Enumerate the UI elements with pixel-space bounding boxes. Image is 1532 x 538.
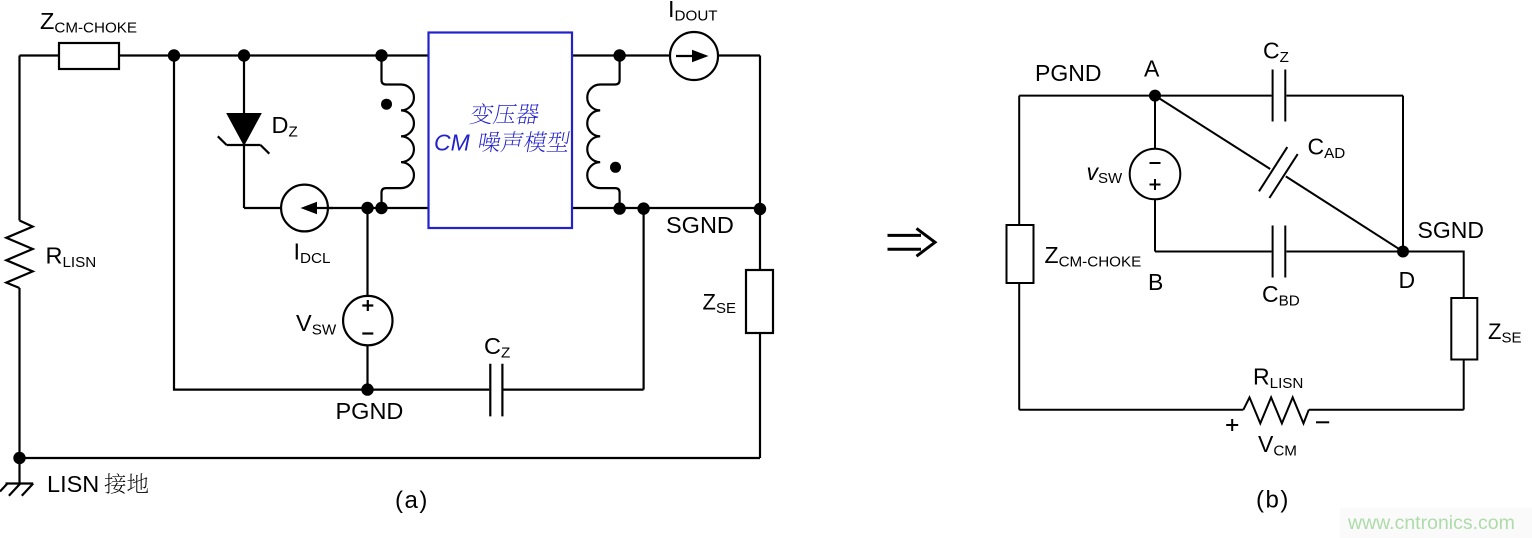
wire vSW to B [1154, 199, 1156, 251]
voltage source vSW circle (b) [1130, 149, 1181, 200]
wire DZ to IDCL row [243, 145, 245, 208]
junction SGND node [754, 203, 766, 215]
diode DZ anode wire [243, 56, 245, 114]
VSW plus sign [362, 300, 373, 311]
wire CAD to D [1286, 176, 1403, 251]
wire B-D row [1155, 251, 1272, 253]
wire IDCL row / SGND row [244, 207, 760, 209]
node PGND [361, 383, 373, 395]
impedance ZCM-CHOKE box (b) [1007, 225, 1034, 283]
svg-text:A: A [1144, 56, 1160, 82]
current source IDCL circle [281, 185, 328, 232]
junction top rail / secondary [613, 49, 625, 61]
voltage source VSW circle [343, 296, 392, 345]
wire bottom rail (b) [1019, 409, 1243, 411]
junction top rail / DZ [238, 49, 250, 61]
inductor primary winding [382, 56, 414, 209]
wire left vertical (a) [18, 56, 20, 221]
vSW minus sign (b) [1150, 162, 1161, 164]
junction LISN ground [13, 452, 25, 464]
junction top rail / PGND branch [168, 49, 180, 61]
capacitor CZ plates (b) [1273, 70, 1286, 122]
vSW plus sign (b) [1150, 179, 1161, 190]
wire CZ to SGND branch [504, 209, 644, 390]
watermark background [1340, 508, 1532, 538]
svg-text:(a): (a) [395, 487, 429, 514]
wire top rail (b) [1019, 95, 1271, 97]
polarity dot primary [381, 99, 392, 110]
ground LISN earth symbol [0, 484, 33, 496]
label plus VCM [1226, 419, 1238, 431]
polarity dot secondary [610, 162, 621, 173]
resistor RLISN zigzag (b) [1243, 397, 1308, 423]
svg-text:PGND: PGND [1035, 60, 1101, 86]
svg-text:CM: CM [434, 130, 471, 156]
transformer CM model box [429, 33, 573, 229]
current source IDOUT arrow [676, 55, 693, 57]
VSW minus sign [362, 332, 373, 334]
label minus VCM [1316, 421, 1329, 423]
wire D to ZSE [1403, 252, 1464, 299]
junction IDCL row / VSW branch [361, 202, 373, 214]
svg-text:SGND: SGND [1418, 217, 1484, 243]
diode DZ triangle [227, 114, 261, 146]
capacitor CZ plates (a) [490, 364, 502, 417]
wire B-D row right [1286, 251, 1403, 253]
wire left vertical lower (a) [18, 288, 20, 458]
resistor RLISN zigzag (a) [6, 221, 32, 289]
wire PGND branch vertical x174 [174, 56, 368, 390]
current source IDOUT circle [670, 32, 718, 80]
capacitor CBD plates [1273, 226, 1286, 278]
capacitor CAD plates [1259, 147, 1298, 198]
wire right vertical x760 [759, 56, 761, 459]
svg-text:PGND: PGND [336, 398, 404, 424]
svg-text:(b): (b) [1256, 487, 1290, 514]
svg-text:SGND: SGND [666, 212, 734, 238]
impedance ZSE box (b) [1451, 298, 1477, 360]
implies arrow [888, 228, 936, 256]
svg-text:D: D [1399, 267, 1416, 293]
wire diagonal A to CAD [1155, 96, 1270, 169]
svg-text:LISN: LISN [47, 471, 99, 497]
wire top rail (a) [20, 54, 761, 56]
resistor ZCM-CHOKE box (a) [59, 43, 119, 69]
svg-text:www.cntronics.com: www.cntronics.com [1347, 512, 1515, 534]
junction top rail / primary [375, 49, 387, 61]
junction SGND row / CZ branch [637, 202, 649, 214]
junction secondary bottom [613, 202, 625, 214]
svg-text:B: B [1148, 269, 1163, 295]
impedance ZSE box (a) [746, 270, 773, 333]
wire VSW branch vertical [366, 208, 368, 390]
diode DZ cathode bar and hooks [218, 136, 269, 153]
wire A to vSW [1154, 96, 1156, 149]
wire ground stub [18, 458, 20, 484]
inductor secondary winding [587, 56, 619, 209]
wire left vertical (b) [1018, 96, 1020, 410]
wire PGND row to capacitor CZ [368, 389, 490, 391]
wire right vertical top (b) [1402, 96, 1404, 252]
node D dot [1397, 246, 1409, 258]
junction primary bottom [375, 202, 387, 214]
wire top rail right (b) [1286, 95, 1403, 97]
current source IDCL arrow [316, 207, 333, 209]
wire bottom rail (a) [20, 457, 761, 459]
wire ZSE to bottom [1463, 360, 1465, 410]
node A dot [1149, 90, 1161, 102]
wire bottom rail right (b) [1309, 409, 1464, 411]
